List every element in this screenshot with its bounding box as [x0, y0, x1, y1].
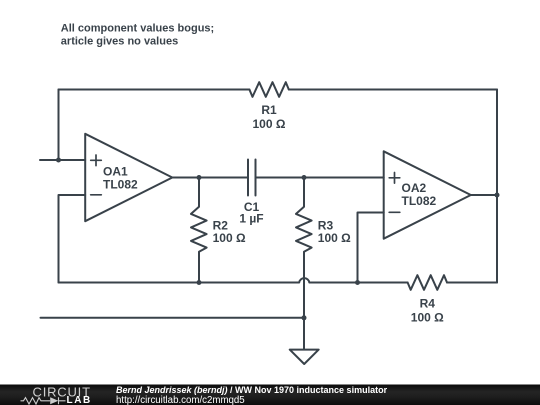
svg-text:100 Ω: 100 Ω: [411, 311, 444, 325]
node A junction top-left: [56, 158, 61, 163]
ground symbol: [290, 350, 319, 364]
node E OA2 feedback junction: [355, 280, 360, 285]
wire capacitor to OA2 non-inverting input: [256, 177, 384, 179]
svg-text:Bernd Jendrissek (berndj) / WW: Bernd Jendrissek (berndj) / WW Nov 1970 …: [116, 385, 388, 395]
svg-text:100 Ω: 100 Ω: [213, 231, 246, 245]
svg-text:OA1: OA1: [103, 165, 128, 179]
wire bottom rail with hop over ground wire: [59, 278, 408, 282]
svg-text:TL082: TL082: [402, 194, 437, 208]
svg-text:100 Ω: 100 Ω: [253, 117, 286, 131]
node D R2 bottom junction: [197, 280, 202, 285]
wire OA1 output to capacitor: [172, 177, 248, 179]
node C capacitor right junction: [302, 175, 307, 180]
wire top feedback right segment: [289, 89, 497, 91]
node F OA2 output junction: [495, 193, 500, 198]
wire non-inverting input stub: [40, 159, 85, 161]
svg-text:OA2: OA2: [402, 181, 427, 195]
svg-text:http://circuitlab.com/c2mmqd5: http://circuitlab.com/c2mmqd5: [116, 395, 245, 405]
wire OA2 output: [471, 194, 497, 196]
op-amp OA1 minus sign: [91, 194, 102, 196]
op-amp U2 OA2 triangle: [384, 151, 471, 238]
node G ground junction: [302, 315, 307, 320]
op-amp OA1 plus sign: [91, 155, 102, 166]
svg-text:R1: R1: [261, 103, 277, 117]
svg-text:All component values bogus;: All component values bogus;: [61, 22, 214, 34]
node B OA1 output junction: [197, 175, 202, 180]
resistor R2 with leads: [191, 178, 207, 283]
wire bottom rail right segment: [447, 282, 497, 284]
svg-text:100 Ω: 100 Ω: [318, 231, 351, 245]
svg-text:LAB: LAB: [67, 395, 92, 405]
wire second input rail to ground node: [41, 317, 305, 319]
svg-text:article gives no values: article gives no values: [61, 35, 178, 47]
resistor R3 with leads down to ground wire: [296, 178, 312, 350]
capacitor C1 plates: [248, 160, 256, 196]
wire right vertical output rail: [496, 90, 498, 283]
wire OA2 inverting input feedback: [358, 213, 384, 283]
logo resistor-diode symbol: [21, 397, 66, 404]
resistor R4: [408, 275, 447, 290]
resistor R1: [249, 82, 288, 97]
wire left vertical from top feedback to + input: [58, 90, 60, 161]
op-amp OA2 plus sign: [389, 173, 400, 184]
op-amp U1 OA1 triangle: [85, 134, 172, 221]
wire top feedback left segment: [59, 89, 250, 91]
svg-text:TL082: TL082: [103, 178, 138, 192]
op-amp OA2 minus sign: [389, 211, 400, 213]
wire inverting input of OA1 down to bottom rail: [59, 195, 86, 283]
svg-text:R4: R4: [420, 297, 436, 311]
svg-text:1 µF: 1 µF: [239, 212, 263, 226]
